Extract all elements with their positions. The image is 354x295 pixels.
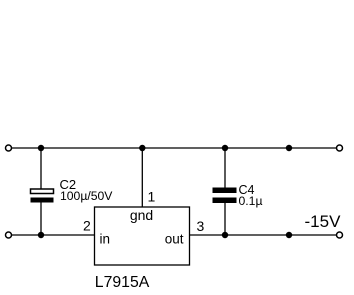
terminal (bottom-left open circle)	[6, 232, 12, 238]
svg-text:1: 1	[148, 189, 156, 205]
junction (bottom rail / C2)	[38, 232, 44, 238]
wire (bottom rail left: terminal to pin 2 / in)	[12, 234, 95, 236]
junction (top rail / gnd pin)	[139, 145, 145, 151]
svg-text:out: out	[165, 232, 184, 247]
wire (C2 branch, bottom segment)	[40, 202, 42, 236]
svg-text:L7915A: L7915A	[95, 274, 150, 291]
wire (gnd pin 1 branch)	[141, 148, 143, 207]
wire (C4 branch, bottom segment)	[224, 203, 226, 236]
junction (top rail / C4)	[222, 145, 228, 151]
svg-text:3: 3	[197, 218, 205, 234]
wire (top rail)	[12, 147, 336, 149]
junction (bottom rail / C4)	[222, 232, 228, 238]
terminal (top-right open circle)	[337, 145, 343, 151]
op-amp U1 regulator L7915A body	[95, 207, 190, 265]
svg-text:gnd: gnd	[130, 207, 153, 223]
svg-text:-15V: -15V	[305, 212, 342, 231]
svg-text:2: 2	[83, 218, 91, 234]
capacitor C2 (electrolytic, top plate outlined)	[31, 189, 54, 194]
wire (bottom rail right: pin 3 / out to terminal)	[190, 234, 337, 236]
junction (bottom rail, right stub)	[286, 232, 292, 238]
wire (C2 branch, top segment)	[40, 148, 42, 189]
terminal (bottom-right open circle)	[337, 232, 343, 238]
svg-text:in: in	[100, 232, 111, 247]
terminal (top-left open circle)	[6, 145, 12, 151]
capacitor C4 (both plates solid)	[213, 188, 237, 194]
junction (top rail, right stub)	[286, 145, 292, 151]
junction (top rail / C2)	[38, 145, 44, 151]
svg-text:100µ/50V: 100µ/50V	[60, 189, 113, 203]
svg-text:0.1µ: 0.1µ	[239, 194, 263, 208]
wire (C4 branch, top segment)	[224, 148, 226, 188]
